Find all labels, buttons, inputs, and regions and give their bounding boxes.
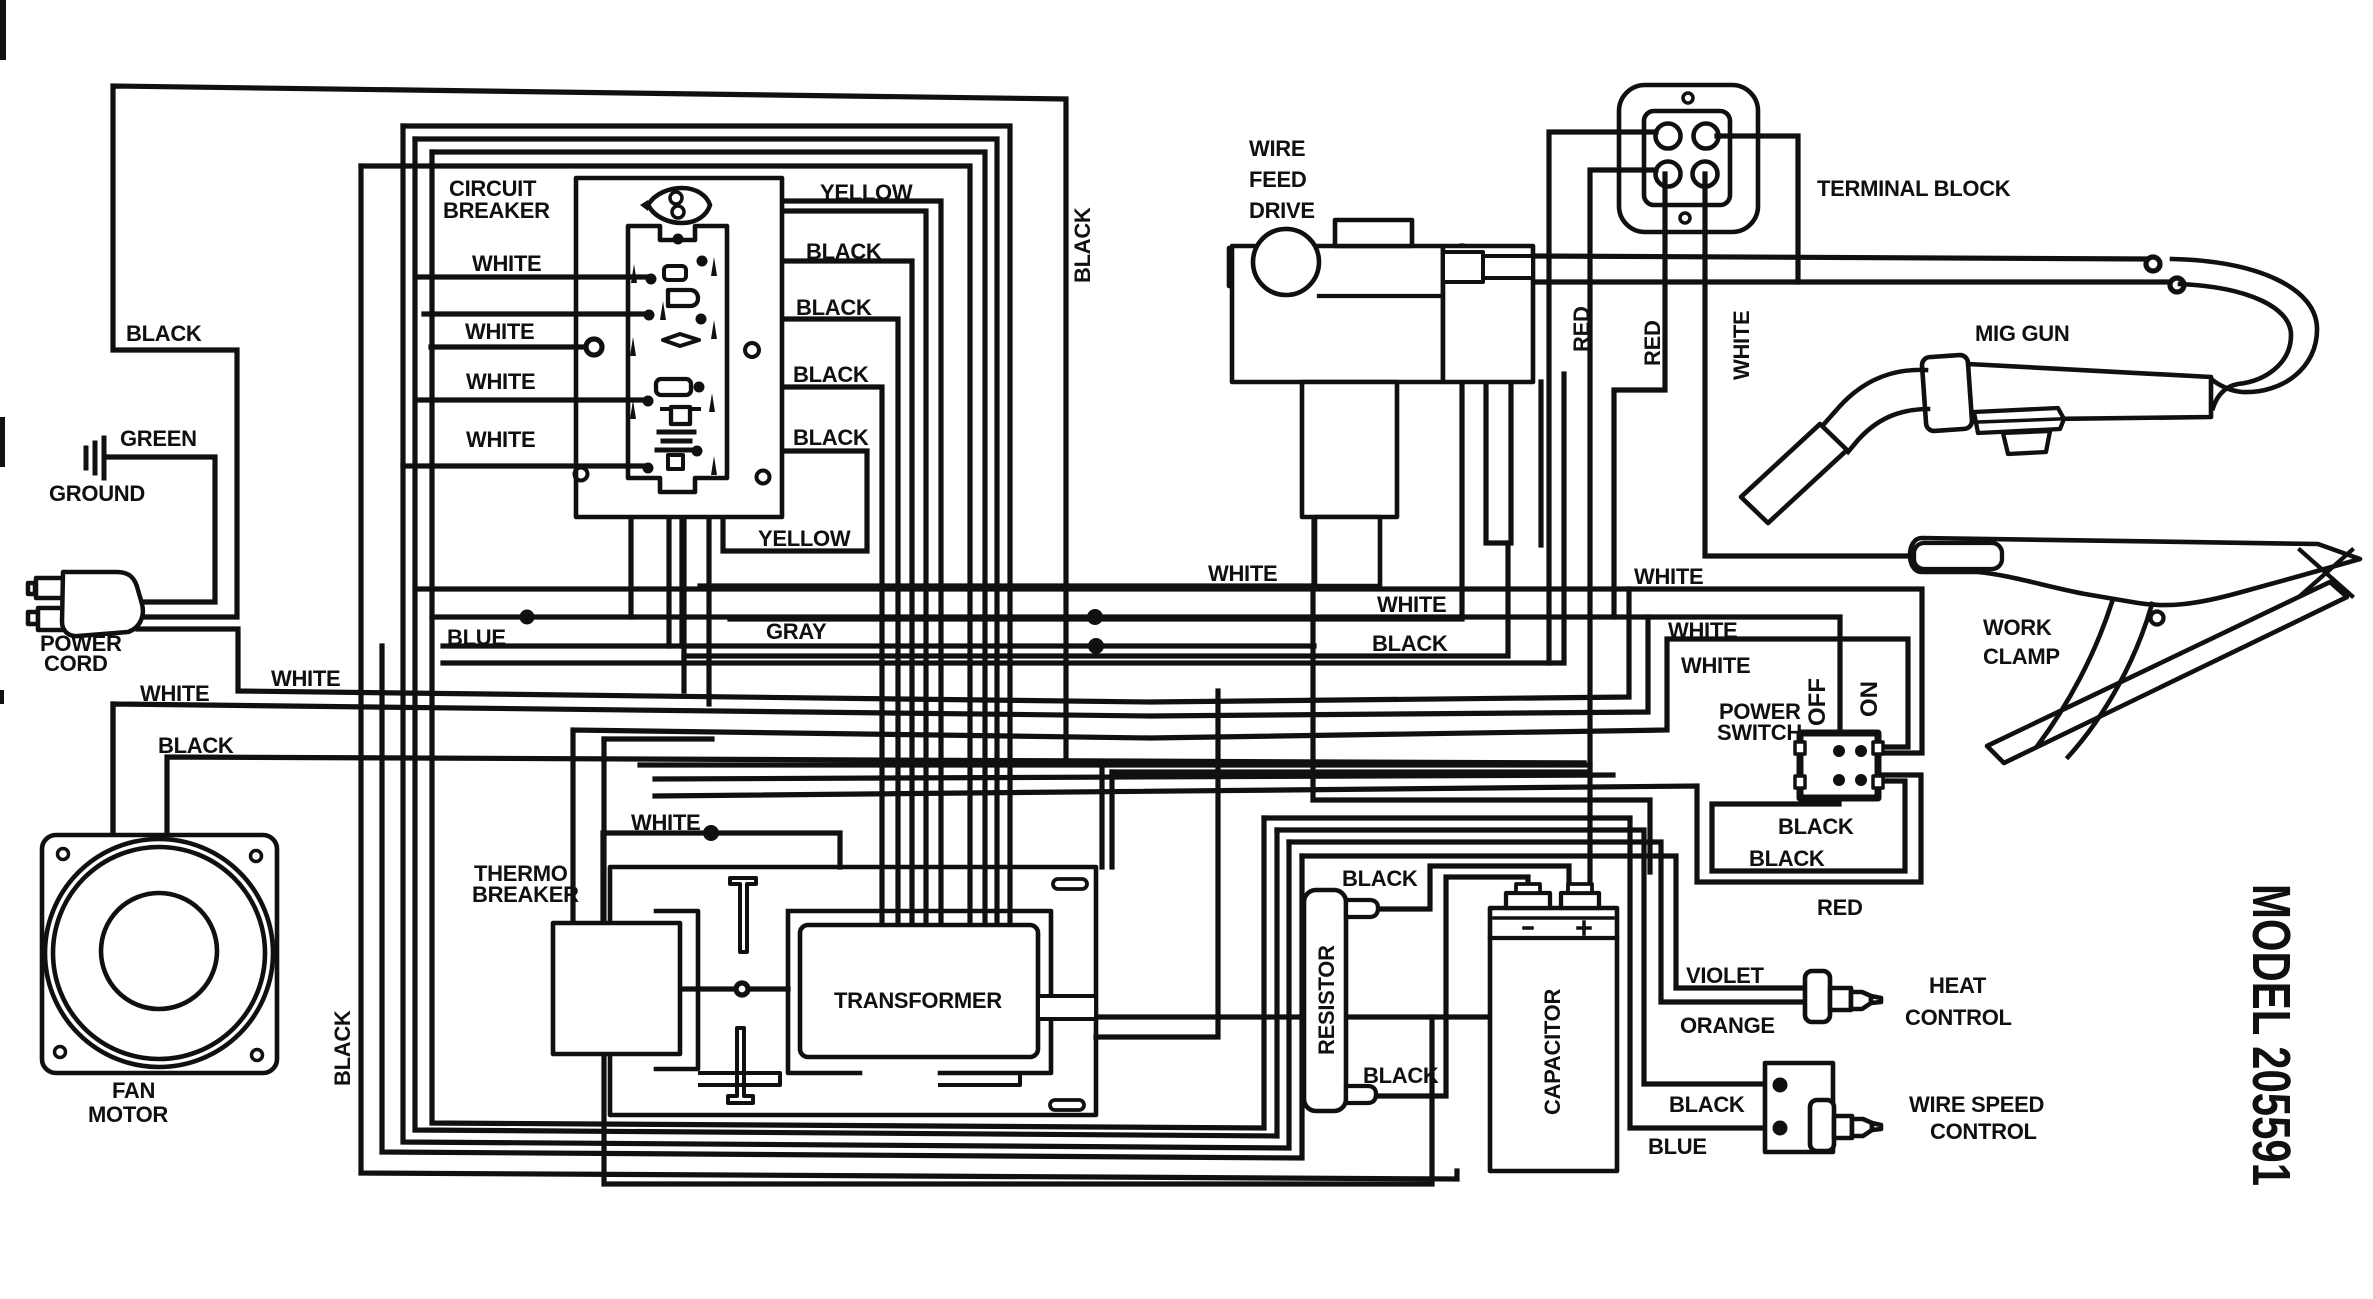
power switch side tabs <box>1795 742 1805 754</box>
wire: bundle line to blue (wire speed) <box>1264 818 1772 1128</box>
svg-text:FAN: FAN <box>112 1078 155 1103</box>
svg-text:CONTROL: CONTROL <box>1905 1005 2012 1030</box>
wire: white staircase wire 1 <box>415 589 1922 753</box>
svg-text:CLAMP: CLAMP <box>1983 644 2060 669</box>
plate shapes column <box>664 266 686 280</box>
svg-text:WHITE: WHITE <box>465 319 534 344</box>
work clamp curved arm <box>2038 602 2112 745</box>
wire: white fan-motor lead <box>113 617 1648 835</box>
fan motor screws <box>55 849 263 1061</box>
heat control pot <box>1805 971 1881 1022</box>
mig gun cable outer curve <box>2172 259 2317 392</box>
svg-text:WHITE: WHITE <box>1729 311 1754 380</box>
svg-text:BLACK: BLACK <box>793 425 869 450</box>
junction dot mid gray line <box>1088 638 1104 654</box>
wire: terminal block red lead 2 with jog <box>1614 174 1665 617</box>
wire: left tall vertical B <box>382 646 1302 1158</box>
power switch pins <box>1833 745 1845 757</box>
plate slot top-right <box>1053 879 1087 889</box>
right terminal dots <box>697 256 708 267</box>
svg-text:BLACK: BLACK <box>330 1010 355 1086</box>
svg-text:WHITE: WHITE <box>1668 618 1737 643</box>
wire: mig gun lead lower <box>1537 279 2171 284</box>
wire feed drive left ear <box>1229 248 1257 286</box>
wire: blue wire with junction <box>432 617 1840 748</box>
wire: mid wire y730 staircase to switch <box>573 639 1908 923</box>
svg-text:GRAY: GRAY <box>766 619 827 644</box>
wire: bundle line to black (wire speed) <box>1277 830 1772 1084</box>
mig gun trigger guard <box>1974 408 2064 433</box>
svg-text:HEAT: HEAT <box>1929 973 1987 998</box>
capacitor top band <box>1490 936 1617 940</box>
wire: cb black lead 4 <box>702 451 867 551</box>
mig gun handle <box>1968 364 2211 420</box>
wire: cb bottom stub 2 <box>666 517 671 646</box>
work clamp handle sleeve <box>1914 543 2002 569</box>
wire speed control switch <box>1765 1063 1881 1152</box>
svg-text:BLACK: BLACK <box>126 321 202 346</box>
svg-text:VIOLET: VIOLET <box>1686 963 1765 988</box>
wire: cb bottom stub 1 <box>628 517 633 617</box>
svg-text:YELLOW: YELLOW <box>820 180 913 205</box>
transformer right notch <box>1038 996 1096 1019</box>
svg-text:CORD: CORD <box>44 651 108 676</box>
svg-text:WHITE: WHITE <box>1634 564 1703 589</box>
svg-text:GROUND: GROUND <box>49 481 145 506</box>
drive solenoid <box>1302 382 1397 517</box>
wire: transformer bottom-right nest <box>1096 691 1218 1037</box>
svg-text:MODEL 205591: MODEL 205591 <box>2241 884 2301 1186</box>
wire: outer black/gray loop from power cord around top to circuit breaker <box>113 86 1066 757</box>
wire: cb black lead 3 <box>704 387 882 926</box>
fan motor frame <box>42 835 277 1073</box>
wire: left tall vertical E <box>432 152 1264 1128</box>
wire: switch lower red loop <box>655 775 1921 882</box>
resistor top terminal <box>1346 900 1378 917</box>
svg-text:BLACK: BLACK <box>1372 631 1448 656</box>
junction dot on blue wire <box>520 610 535 625</box>
wire: terminal block top-right pin loop <box>1717 136 1798 282</box>
wire: capacitor nest line 1 horizontal <box>1102 760 1584 765</box>
svg-text:WHITE: WHITE <box>631 810 700 835</box>
svg-text:WHITE: WHITE <box>1208 561 1277 586</box>
wire: bundle line to orange (heat control) <box>1289 842 1806 1002</box>
wire feed drive body <box>1232 246 1443 382</box>
wire: y739 crosser <box>604 736 712 741</box>
wire: cb bottom stub 4 <box>706 517 711 704</box>
mig gun collar <box>1921 354 1972 431</box>
fan motor hub <box>101 893 217 1009</box>
wire: fan leads into motor <box>110 704 115 835</box>
junction dot mid blue line <box>1087 609 1103 625</box>
svg-text:BLACK: BLACK <box>806 239 882 264</box>
svg-text:RED: RED <box>1569 306 1594 352</box>
svg-text:RED: RED <box>1817 895 1863 920</box>
svg-text:FEED: FEED <box>1249 167 1306 192</box>
svg-text:WHITE: WHITE <box>271 666 340 691</box>
wire: circuit breaker white lead 3 with ring lug <box>431 344 583 349</box>
wire: drive solenoid U loop <box>1486 382 1511 543</box>
node: link terminal circle <box>736 983 748 995</box>
circuit breaker reset ornament <box>648 188 710 223</box>
wire: yellow wire 1 <box>716 201 941 926</box>
svg-text:BLACK: BLACK <box>1342 866 1418 891</box>
wire: cb white wire 5 <box>403 463 643 468</box>
wire: resistor top black wire to capacitor <box>1377 866 1569 909</box>
wire: nest line 4 <box>361 166 970 926</box>
svg-text:TERMINAL BLOCK: TERMINAL BLOCK <box>1817 176 2011 201</box>
plate slot bottom-right <box>1050 1100 1084 1110</box>
wire: capacitor nest line 2 horizontal <box>1112 769 1590 774</box>
wire feed drive top cap <box>1335 220 1412 246</box>
wire: bundle line to violet (heat control) <box>1302 856 1806 988</box>
power switch body <box>1800 733 1878 798</box>
wire: capacitor nest line 2 <box>1109 772 1114 867</box>
mig gun cable inner curve <box>2180 284 2291 408</box>
work clamp lower arm bar <box>1987 582 2347 763</box>
terminal block screws <box>1683 93 1693 103</box>
junction dot on white thermo wire <box>703 825 719 841</box>
capacitor body <box>1490 908 1617 1171</box>
transformer feet <box>700 1073 780 1085</box>
wire: white lead to drive area <box>730 246 1462 619</box>
svg-text:MOTOR: MOTOR <box>88 1102 168 1127</box>
svg-text:BLACK: BLACK <box>1749 846 1825 871</box>
circuit breaker inner plate with notches <box>628 226 727 492</box>
wire: y779 crosser <box>655 775 1613 779</box>
svg-text:YELLOW: YELLOW <box>758 526 851 551</box>
svg-text:BLACK: BLACK <box>793 362 869 387</box>
wire: terminal block lower-left pin lead <box>1590 170 1656 896</box>
svg-text:SWITCH: SWITCH <box>1717 720 1802 745</box>
wire: drive right block stub <box>1538 382 1543 545</box>
wire: yellow wire 2 <box>716 211 926 926</box>
svg-text:BREAKER: BREAKER <box>472 882 579 907</box>
svg-text:BLUE: BLUE <box>447 625 506 650</box>
wire: cb black lead 1 <box>707 261 912 926</box>
wire: left tall vertical D <box>415 139 1277 1136</box>
wire: switch inner black loop from pin3 <box>1712 781 1905 871</box>
wire: capacitor nest line 1 <box>1099 763 1104 867</box>
svg-text:OFF: OFF <box>1804 678 1831 726</box>
wire: terminal block left loop vertical <box>1549 132 1656 663</box>
wire: cb bottom stub 3 <box>681 517 686 691</box>
resistor body <box>1304 890 1346 1111</box>
mig gun neck tube <box>1824 370 1926 424</box>
wire: blue-gray long wire <box>443 643 1314 648</box>
wire: unlabeled pair upper <box>443 374 1564 663</box>
ring lug <box>586 339 602 355</box>
work clamp upper jaw <box>1910 538 2360 605</box>
svg-text:BLACK: BLACK <box>158 733 234 758</box>
wire: circuit breaker white lead 2 <box>424 311 644 316</box>
wire: mig gun lead upper <box>1533 256 2147 259</box>
wire: white thermo wire with junction <box>603 833 840 923</box>
terminal block inner <box>1644 111 1730 205</box>
wire: drive vertical nest <box>1313 586 1650 872</box>
resistor bottom terminal <box>1346 1086 1376 1103</box>
svg-text:DRIVE: DRIVE <box>1249 198 1315 223</box>
wire: resistor bottom black wire to capacitor <box>1373 877 1528 1096</box>
wire: white drive lead <box>700 382 1314 586</box>
wire: white power-cord lead <box>138 589 1629 702</box>
terminal ring upper mig lead <box>2146 257 2160 271</box>
terminal block outer <box>1619 85 1758 232</box>
drive solenoid lower <box>1315 517 1380 586</box>
terminal block pins <box>1656 124 1681 149</box>
wire: thermo enclosure nest <box>604 739 1432 1184</box>
svg-text:BLUE: BLUE <box>1648 1134 1707 1159</box>
transformer mounting plate <box>610 867 1096 1115</box>
svg-text:WHITE: WHITE <box>140 681 209 706</box>
wire: nest line 2 <box>415 139 997 926</box>
wire feed drive motor <box>1253 229 1319 295</box>
terminal ring lower mig lead <box>2170 278 2184 292</box>
wire: y765 crosser <box>640 762 1590 767</box>
power cord plug <box>28 572 143 636</box>
blade marks <box>630 257 717 475</box>
work clamp pivot <box>2151 612 2164 625</box>
core T-bar top <box>730 878 756 952</box>
svg-text:TRANSFORMER: TRANSFORMER <box>834 988 1002 1013</box>
transformer coil bracket <box>788 911 1051 1073</box>
wire: gray horizontal <box>679 520 684 646</box>
svg-text:BLACK: BLACK <box>1778 814 1854 839</box>
core T-bar bottom <box>728 1028 753 1103</box>
wire: green ground lead <box>106 457 215 602</box>
svg-text:WHITE: WHITE <box>466 369 535 394</box>
wire: terminal block white lead to work clamp <box>1705 174 1917 556</box>
cb left terminal dots <box>643 274 657 474</box>
svg-text:WORK: WORK <box>1983 615 2052 640</box>
plate top dot <box>673 234 684 245</box>
wire speed control pins <box>1773 1078 1788 1093</box>
thermo breaker block <box>553 923 680 1054</box>
svg-text:WHITE: WHITE <box>466 427 535 452</box>
wire: transformer output right <box>1096 1014 1605 1019</box>
svg-text:WHITE: WHITE <box>472 251 541 276</box>
wire: left tall vertical C with white long branch <box>403 126 1289 1148</box>
wire: circuit breaker white lead 1 <box>417 274 646 279</box>
svg-text:BREAKER: BREAKER <box>443 198 550 223</box>
svg-text:BLACK: BLACK <box>1363 1063 1439 1088</box>
svg-text:CAPACITOR: CAPACITOR <box>1540 989 1565 1115</box>
panel open circles <box>745 343 759 357</box>
mig gun nozzle <box>1741 424 1847 523</box>
svg-text:WHITE: WHITE <box>1681 653 1750 678</box>
wire: circuit breaker white lead 4 <box>417 397 643 402</box>
wire: black fan-motor lead <box>167 757 1584 835</box>
transformer body <box>800 925 1038 1057</box>
svg-text:BLACK: BLACK <box>796 295 872 320</box>
mig gun trigger <box>2003 431 2050 454</box>
svg-text:BLACK: BLACK <box>1070 207 1095 283</box>
wire: left tall vertical A <box>361 166 1457 1179</box>
svg-text:RESISTOR: RESISTOR <box>1314 945 1339 1055</box>
wire: thermo to transformer link <box>680 986 788 991</box>
svg-text:RED: RED <box>1640 320 1665 366</box>
wire feed motor circle overlay <box>1253 229 1319 295</box>
drive connector detail <box>1443 252 1483 282</box>
capacitor polarity marks <box>1524 926 1532 930</box>
svg-text:CONTROL: CONTROL <box>1930 1119 2037 1144</box>
wire: nest line 1 to circuit breaker area <box>403 126 1010 926</box>
wire feed drive right block <box>1443 246 1533 382</box>
wire: cb black lead 2 <box>706 319 898 926</box>
svg-text:BLACK: BLACK <box>1669 1092 1745 1117</box>
ground symbol <box>86 438 104 478</box>
thermo breaker bracket <box>656 911 698 1069</box>
svg-text:WIRE SPEED: WIRE SPEED <box>1909 1092 2044 1117</box>
fan motor second ring <box>53 847 265 1059</box>
svg-text:WIRE: WIRE <box>1249 136 1305 161</box>
circuit breaker outer panel <box>576 178 782 517</box>
wire: black lead to drive area <box>684 543 1508 656</box>
fan motor outer ring <box>45 839 273 1067</box>
svg-text:MIG GUN: MIG GUN <box>1975 321 2069 346</box>
wire: nest line 3 <box>432 152 985 926</box>
svg-text:ON: ON <box>1856 681 1883 717</box>
svg-text:ORANGE: ORANGE <box>1680 1013 1775 1038</box>
capacitor terminals <box>1506 893 1550 908</box>
svg-text:GREEN: GREEN <box>120 426 197 451</box>
work clamp jaw teeth cross <box>2300 550 2352 596</box>
svg-text:WHITE: WHITE <box>1377 592 1446 617</box>
